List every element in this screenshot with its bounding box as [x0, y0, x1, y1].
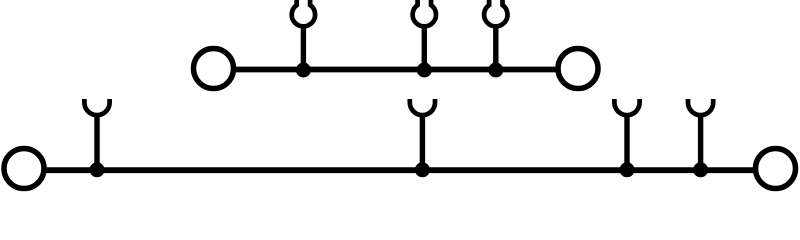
junction dot lower 4	[693, 162, 708, 177]
junction dot upper 3	[488, 63, 503, 78]
clamp contact (spring cup) lower 4	[688, 99, 713, 115]
clamp contact (spring cup) lower 3	[614, 99, 639, 115]
clamp contact (plug bush) upper 3	[484, 0, 507, 26]
wire: lower stub column 3 (x=627)	[624, 114, 629, 171]
wire: upper level rail	[214, 67, 579, 73]
wire: upper stub column 2 (x=424.3)	[422, 26, 427, 71]
clamp contact (spring cup) lower 1	[84, 99, 109, 115]
junction dot upper 1	[296, 63, 311, 78]
wire: lower level rail	[24, 167, 776, 173]
terminal circle lower right	[756, 149, 796, 189]
wire: upper stub column 1 (x=303.4)	[301, 26, 306, 71]
clamp contact (plug bush) upper 2	[413, 0, 436, 26]
junction dot lower 1	[90, 162, 105, 177]
terminal circle upper left	[194, 49, 234, 89]
wire: upper stub column 3 (x=495.8)	[493, 26, 498, 71]
terminal circle upper right	[558, 49, 598, 89]
terminal circle lower left	[4, 149, 44, 189]
junction dot upper 2	[417, 63, 432, 78]
junction dot lower 2	[415, 162, 430, 177]
wire: lower stub column 1 (x=97)	[94, 114, 99, 171]
wire: lower stub column 2 (x=422.4)	[420, 114, 425, 171]
junction dot lower 3	[620, 162, 635, 177]
clamp contact (plug bush) upper 1	[292, 0, 315, 26]
clamp contact (spring cup) lower 2	[410, 99, 435, 115]
wire: lower stub column 4 (x=700.6)	[698, 114, 703, 171]
